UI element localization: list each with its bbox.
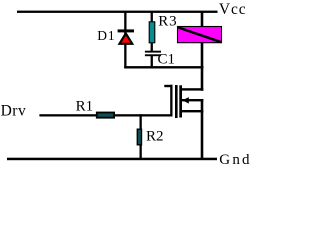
svg-text:R3: R3 xyxy=(158,14,177,30)
svg-text:R1: R1 xyxy=(76,98,94,114)
svg-text:D1: D1 xyxy=(97,28,115,43)
svg-text:C1: C1 xyxy=(158,52,176,68)
svg-text:R2: R2 xyxy=(146,128,164,144)
svg-text:Gnd: Gnd xyxy=(219,152,251,168)
svg-text:Drv: Drv xyxy=(1,103,27,120)
svg-text:Vcc: Vcc xyxy=(219,1,247,18)
